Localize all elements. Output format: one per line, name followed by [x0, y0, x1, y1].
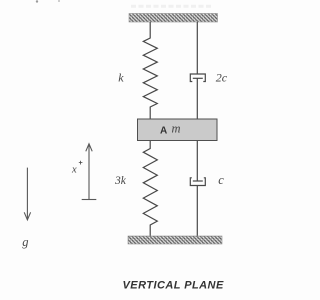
rod cup to floor	[196, 186, 198, 237]
rod ceiling to cup	[196, 22, 198, 74]
svg-text:VERTICAL PLANE: VERTICAL PLANE	[123, 280, 224, 292]
x+ positive direction reference arrow	[82, 144, 97, 200]
mass block m (point A)	[138, 119, 218, 141]
svg-text:2c: 2c	[216, 70, 228, 84]
spring 3k (lower left spring)	[143, 141, 157, 237]
piston plate	[193, 77, 203, 79]
svg-text:A: A	[160, 126, 167, 137]
piston plate	[193, 180, 203, 182]
svg-text:3k: 3k	[114, 175, 127, 187]
cup (opens downward)	[190, 74, 205, 82]
label 3k	[114, 175, 127, 187]
label k	[118, 71, 124, 85]
label m	[172, 122, 181, 136]
stray specks top edge	[36, 0, 60, 3]
floor support (hatched)	[128, 236, 222, 244]
ceiling support (hatched)	[129, 14, 218, 23]
cup (opens upward)	[190, 178, 205, 186]
gravity arrow g	[24, 168, 30, 220]
faint ghost text bleed-through above ceiling	[131, 5, 213, 8]
caption VERTICAL PLANE	[123, 280, 224, 292]
svg-text:+: +	[79, 158, 83, 167]
rod mass to piston	[196, 141, 198, 181]
label 2c	[216, 70, 228, 84]
svg-text:c: c	[218, 173, 224, 187]
label x+	[71, 158, 83, 176]
svg-text:k: k	[118, 71, 124, 85]
svg-text:m: m	[172, 122, 181, 136]
damper 2c (upper right dashpot)	[190, 22, 205, 119]
label c	[218, 173, 224, 187]
rod piston to mass	[196, 78, 198, 119]
label A	[160, 126, 167, 137]
damper c (lower right dashpot)	[190, 141, 205, 236]
svg-text:x: x	[71, 165, 77, 176]
svg-text:g: g	[22, 235, 28, 249]
spring k (upper left spring)	[143, 22, 157, 119]
label g	[22, 235, 28, 249]
